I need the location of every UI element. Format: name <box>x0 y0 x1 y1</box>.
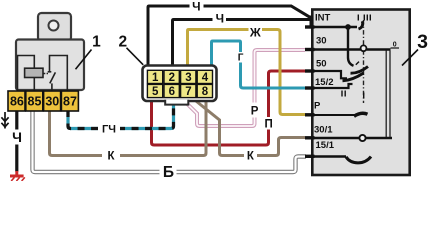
svg-text:30: 30 <box>45 95 59 109</box>
svg-text:2: 2 <box>118 34 127 51</box>
svg-text:86: 86 <box>10 95 24 109</box>
svg-text:ГЧ: ГЧ <box>102 124 116 136</box>
svg-text:Б: Б <box>163 164 174 181</box>
svg-text:1: 1 <box>92 33 101 50</box>
svg-text:6: 6 <box>169 86 175 98</box>
svg-text:15/1: 15/1 <box>316 140 335 151</box>
svg-text:Ж: Ж <box>249 26 261 40</box>
svg-text:7: 7 <box>185 86 191 98</box>
svg-text:30: 30 <box>316 36 327 47</box>
svg-text:Р: Р <box>251 106 259 118</box>
svg-text:87: 87 <box>63 95 77 109</box>
svg-text:15/2: 15/2 <box>315 77 334 88</box>
svg-text:3: 3 <box>185 72 191 84</box>
svg-text:Ч: Ч <box>192 0 200 13</box>
svg-text:85: 85 <box>28 95 42 109</box>
svg-text:К: К <box>107 151 115 163</box>
svg-text:1: 1 <box>152 72 159 84</box>
svg-text:50: 50 <box>316 59 327 70</box>
svg-text:INT: INT <box>315 13 331 24</box>
svg-text:0: 0 <box>393 42 397 49</box>
svg-text:Ч: Ч <box>216 12 224 26</box>
svg-text:Ч: Ч <box>12 129 22 145</box>
svg-text:Г: Г <box>238 53 244 64</box>
svg-text:2: 2 <box>169 72 175 84</box>
svg-text:8: 8 <box>202 86 209 98</box>
svg-text:30/1: 30/1 <box>314 125 333 136</box>
svg-text:P: P <box>314 101 321 112</box>
svg-text:5: 5 <box>152 86 159 98</box>
svg-text:4: 4 <box>202 72 209 84</box>
svg-text:П: П <box>264 118 272 130</box>
svg-text:3: 3 <box>417 31 428 53</box>
svg-text:К: К <box>247 151 255 163</box>
